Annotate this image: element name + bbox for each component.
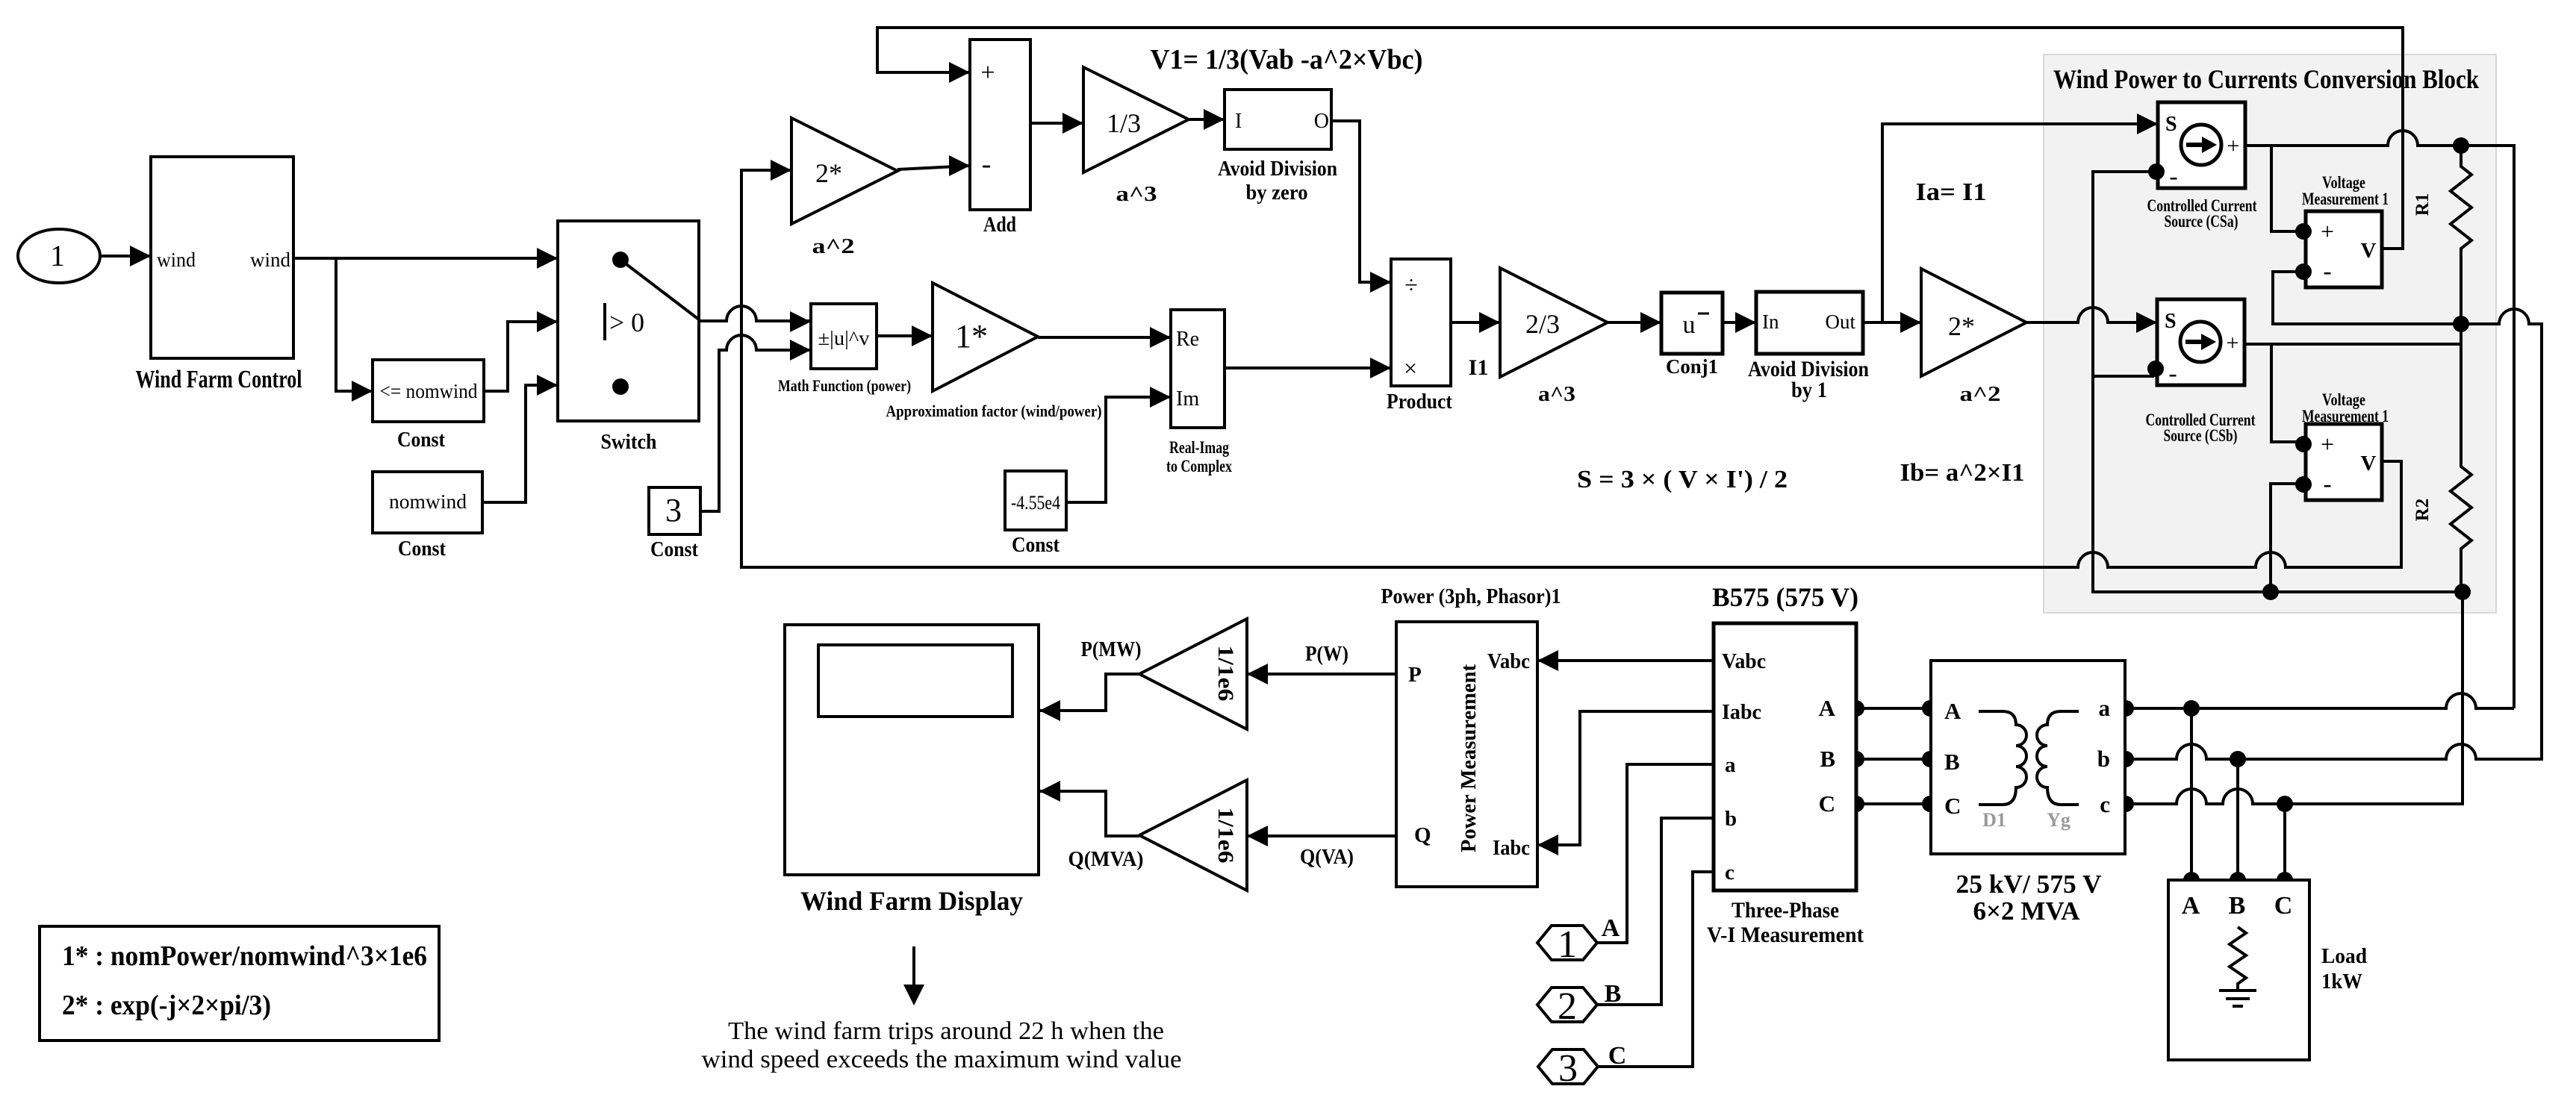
svg-text:2*: 2*: [815, 158, 842, 188]
svg-text:1kW: 1kW: [2321, 970, 2362, 993]
svg-text:Measurement 1: Measurement 1: [2302, 407, 2389, 425]
svg-text:R2: R2: [2412, 499, 2433, 522]
svg-text:by zero: by zero: [1246, 181, 1308, 205]
svg-text:c: c: [1725, 861, 1735, 885]
svg-text:The wind farm trips around 22: The wind farm trips around 22 h when the: [728, 1017, 1164, 1045]
svg-text:Product: Product: [1387, 390, 1452, 414]
svg-text:Wind Farm Control: Wind Farm Control: [136, 366, 302, 393]
svg-text:Ia= I1: Ia= I1: [1916, 178, 1987, 206]
svg-text:P(W): P(W): [1305, 643, 1348, 666]
svg-text:-: -: [982, 149, 992, 180]
svg-text:Iabc: Iabc: [1722, 701, 1761, 724]
svg-text:Const: Const: [650, 537, 698, 561]
svg-text:Iabc: Iabc: [1493, 837, 1530, 860]
svg-text:a^2: a^2: [1960, 383, 2001, 406]
svg-text:P: P: [1408, 663, 1422, 687]
svg-text:1/3: 1/3: [1107, 108, 1141, 138]
svg-text:-: -: [2323, 258, 2331, 285]
svg-text:nomwind: nomwind: [389, 490, 467, 513]
svg-text:c: c: [2100, 791, 2110, 817]
svg-text:+: +: [2321, 431, 2334, 458]
svg-text:> 0: > 0: [609, 308, 644, 337]
svg-text:S: S: [2165, 113, 2177, 136]
svg-text:Real-Imag: Real-Imag: [1169, 438, 1229, 457]
svg-text:+: +: [2321, 218, 2334, 245]
svg-text:Q(MVA): Q(MVA): [1068, 848, 1144, 871]
svg-text:÷: ÷: [1404, 271, 1418, 298]
svg-text:R1: R1: [2412, 193, 2433, 216]
svg-text:B: B: [1944, 749, 1960, 775]
svg-text:V: V: [2361, 239, 2377, 263]
svg-text:wind speed exceeds the maximum: wind speed exceeds the maximum wind valu…: [702, 1046, 1182, 1073]
svg-text:a: a: [2099, 695, 2111, 721]
svg-text:1* : nomPower/nomwind^3×1e6: 1* : nomPower/nomwind^3×1e6: [62, 940, 427, 972]
svg-text:1: 1: [50, 239, 65, 272]
svg-text:C: C: [1819, 790, 1835, 817]
svg-text:±|u|^v: ±|u|^v: [818, 327, 871, 349]
svg-text:Const: Const: [397, 428, 445, 452]
svg-text:A: A: [1819, 695, 1836, 721]
svg-text:S: S: [2165, 310, 2177, 333]
svg-text:B: B: [1820, 746, 1835, 772]
svg-text:Power (3ph, Phasor)1: Power (3ph, Phasor)1: [1381, 585, 1561, 608]
svg-text:Q(VA): Q(VA): [1300, 846, 1354, 869]
svg-text:2/3: 2/3: [1525, 309, 1560, 339]
svg-text:3: 3: [665, 492, 682, 528]
svg-text:In: In: [1762, 311, 1779, 333]
svg-text:by 1: by 1: [1791, 378, 1827, 402]
svg-text:6×2 MVA: 6×2 MVA: [1973, 896, 2081, 926]
svg-text:-: -: [2168, 360, 2177, 387]
svg-text:A: A: [2182, 892, 2200, 920]
svg-text:Approximation factor (wind/pow: Approximation factor (wind/power): [886, 402, 1102, 420]
svg-text:P(MW): P(MW): [1081, 638, 1142, 661]
svg-text:Vabc: Vabc: [1722, 650, 1766, 673]
svg-text:Wind Farm Display: Wind Farm Display: [800, 886, 1023, 916]
svg-text:Const: Const: [1012, 533, 1060, 557]
svg-text:Yg: Yg: [2047, 809, 2071, 831]
svg-text:1/1e6: 1/1e6: [1213, 808, 1238, 864]
svg-text:b: b: [1725, 807, 1737, 831]
svg-text:2*: 2*: [1948, 311, 1975, 341]
svg-text:<= nomwind: <= nomwind: [380, 380, 478, 402]
svg-text:u: u: [1683, 311, 1696, 339]
svg-text:3: 3: [1558, 1047, 1578, 1090]
svg-text:1*: 1*: [955, 318, 988, 355]
svg-text:to Complex: to Complex: [1166, 457, 1232, 475]
svg-text:V: V: [2361, 452, 2377, 475]
svg-text:-: -: [2323, 470, 2331, 498]
svg-text:Avoid Division: Avoid Division: [1218, 157, 1337, 181]
svg-text:V1= 1/3(Vab -a^2×Vbc): V1= 1/3(Vab -a^2×Vbc): [1151, 44, 1423, 75]
svg-text:Three-Phase: Three-Phase: [1732, 898, 1839, 923]
svg-text:Vabc: Vabc: [1487, 650, 1530, 673]
svg-text:a: a: [1725, 753, 1736, 777]
svg-text:wind: wind: [157, 249, 196, 271]
svg-text:2: 2: [1558, 985, 1577, 1028]
svg-text:B575 (575 V): B575 (575 V): [1712, 582, 1858, 612]
svg-text:Switch: Switch: [601, 430, 657, 454]
svg-text:A: A: [1944, 698, 1961, 724]
svg-text:Const: Const: [398, 537, 446, 561]
svg-text:b: b: [2097, 746, 2110, 772]
svg-text:Power Measurement: Power Measurement: [1457, 664, 1481, 852]
svg-text:-4.55e4: -4.55e4: [1011, 492, 1060, 514]
svg-text:a^3: a^3: [1538, 383, 1575, 406]
svg-text:Conj1: Conj1: [1666, 355, 1718, 378]
svg-text:C: C: [1608, 1042, 1627, 1070]
svg-text:A: A: [1602, 914, 1620, 942]
svg-text:C: C: [1944, 793, 1961, 819]
svg-text:wind: wind: [250, 249, 291, 271]
svg-text:S = 3 × ( V × I') / 2: S = 3 × ( V × I') / 2: [1577, 466, 1788, 493]
svg-text:Q: Q: [1414, 823, 1431, 847]
svg-text:a^2: a^2: [812, 235, 855, 258]
svg-text:+: +: [980, 59, 995, 87]
svg-text:Source (CSb): Source (CSb): [2164, 426, 2238, 445]
svg-text:a^3: a^3: [1116, 183, 1157, 206]
svg-text:V-I Measurement: V-I Measurement: [1707, 923, 1864, 947]
svg-text:25 kV/ 575 V: 25 kV/ 575 V: [1956, 870, 2102, 899]
svg-text:O: O: [1314, 110, 1329, 133]
svg-text:Re: Re: [1176, 328, 1199, 351]
svg-text:2* : exp(-j×2×pi/3): 2* : exp(-j×2×pi/3): [62, 990, 271, 1021]
svg-text:+: +: [2227, 331, 2239, 355]
svg-text:Ib= a^2×I1: Ib= a^2×I1: [1900, 459, 2025, 487]
svg-text:Wind Power to Currents Convers: Wind Power to Currents Conversion Block: [2053, 64, 2479, 94]
svg-text:Load: Load: [2321, 945, 2367, 968]
svg-text:D1: D1: [1982, 809, 2006, 831]
svg-text:I1: I1: [1469, 355, 1489, 380]
svg-text:1/1e6: 1/1e6: [1213, 646, 1238, 702]
svg-text:1: 1: [1558, 923, 1577, 966]
svg-text:Source (CSa): Source (CSa): [2165, 212, 2239, 231]
svg-text:C: C: [2274, 892, 2293, 920]
svg-text:Measurement 1: Measurement 1: [2302, 190, 2389, 208]
svg-text:-: -: [2169, 163, 2177, 190]
svg-text:+: +: [2227, 134, 2240, 158]
svg-text:×: ×: [1404, 355, 1417, 381]
svg-text:Im: Im: [1176, 387, 1199, 411]
svg-text:B: B: [1605, 980, 1622, 1008]
svg-text:Math Function (power): Math Function (power): [778, 376, 911, 395]
svg-text:I: I: [1235, 110, 1242, 133]
svg-text:Add: Add: [983, 213, 1016, 237]
svg-text:Out: Out: [1826, 311, 1856, 333]
svg-text:B: B: [2229, 892, 2246, 920]
